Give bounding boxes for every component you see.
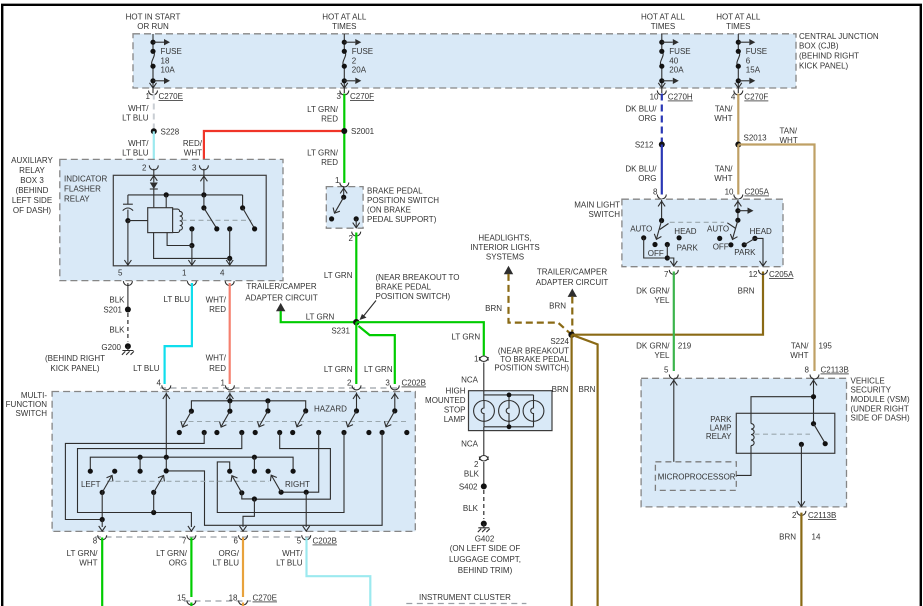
svg-text:FUSE: FUSE [161,47,182,56]
svg-text:LT BLU: LT BLU [213,559,240,568]
svg-text:10: 10 [650,93,659,102]
svg-text:TAN/: TAN/ [715,105,733,114]
VSM relay output to pin 2 [798,444,805,506]
wire DK GRN/YEL MLS pin 7 to VSM pin 5 [636,272,692,372]
svg-text:7: 7 [182,537,187,546]
wire BLK stop lamp to S402 [464,462,484,486]
svg-text:S2013: S2013 [744,134,768,143]
wire TAN/WHT C270F to S2013 [714,94,738,145]
svg-text:BRN: BRN [738,287,755,296]
svg-text:RELAY: RELAY [19,166,45,175]
svg-text:KICK PANEL): KICK PANEL) [50,364,100,373]
svg-text:HOT IN START: HOT IN START [126,13,181,22]
splice S231 [331,319,359,336]
hazard pole 3 [253,408,283,435]
wire ORG/LT BLU MFS pin 6 to C270E pin 18 [213,538,243,598]
svg-text:5: 5 [297,537,302,546]
svg-text:DK BLU/: DK BLU/ [625,105,657,114]
svg-text:BRN: BRN [485,304,502,313]
svg-text:ADAPTER CIRCUIT: ADAPTER CIRCUIT [536,278,609,287]
wire BLK S201 to G200 [109,313,128,342]
connector C270F pin 3 [337,91,375,102]
svg-text:RED: RED [209,364,226,373]
svg-text:20A: 20A [352,66,367,75]
wire DK BLU/ORG C270H to S212 [625,94,661,145]
svg-text:BRN: BRN [552,385,569,394]
trailer/camper adapter circuit arrow (right) [536,268,609,335]
svg-text:3: 3 [385,379,390,388]
svg-text:FUNCTION: FUNCTION [6,400,48,409]
svg-text:219: 219 [678,342,692,351]
relay exit arrows pins 5 1 4 [124,260,233,265]
relay coil box [148,208,183,233]
svg-text:1: 1 [474,355,479,364]
svg-text:C202B: C202B [313,537,337,546]
park lamp relay switch [755,421,828,447]
svg-text:5: 5 [664,366,669,375]
svg-text:HOT AT ALL: HOT AT ALL [716,13,761,22]
label HOT AT ALL TIMES (fuse 6) [716,13,761,32]
svg-text:YEL: YEL [654,351,670,360]
svg-text:S231: S231 [331,327,350,336]
main light switch box [574,199,783,267]
svg-text:WHT: WHT [184,149,202,158]
svg-text:18: 18 [229,594,238,603]
svg-text:RED/: RED/ [183,139,203,148]
wire BRN S224 down right [572,335,598,606]
svg-text:INTERIOR LIGHTS: INTERIOR LIGHTS [470,243,539,252]
label near breakout to brake pedal position switch [360,273,460,320]
svg-text:15: 15 [177,594,186,603]
svg-text:2: 2 [347,379,352,388]
ground G402 [449,521,521,575]
svg-text:WHT: WHT [714,114,732,123]
svg-text:6: 6 [746,57,751,66]
svg-text:WHT/: WHT/ [128,139,149,148]
hazard pole 4 live to pin 5 node [281,433,319,528]
wire LT BLU relay pin 1 to MFS pin 4 [133,283,192,384]
turn switch 3 [231,476,257,527]
svg-text:ORG/: ORG/ [219,549,240,558]
svg-text:MULTI-: MULTI- [21,391,47,400]
svg-text:18: 18 [161,57,170,66]
svg-text:RELAY: RELAY [706,432,732,441]
svg-text:HOT AT ALL: HOT AT ALL [641,13,686,22]
svg-text:(BEHIND RIGHT: (BEHIND RIGHT [799,52,859,61]
lamp bulb 2 [499,401,520,422]
instrument cluster box [406,593,526,603]
connector VSM pin 8 C2113B [805,366,849,380]
connector MFS pin 5 [297,535,311,545]
MFS pin 3 entry wire [391,393,398,411]
fuse 6 15A [736,34,767,93]
connector VSM pin 5 [664,366,678,380]
svg-text:ORG: ORG [638,174,656,183]
multi-function switch box [6,391,416,531]
svg-text:INDICATOR: INDICATOR [64,175,107,184]
connector MFS pin 3 [385,379,399,390]
svg-text:(BEHIND: (BEHIND [16,186,49,195]
relay capacitor [123,195,133,221]
svg-text:AUTO: AUTO [630,225,652,234]
hazard linkage dashes [180,405,408,422]
svg-text:POSITION SWITCH): POSITION SWITCH) [494,364,569,373]
connector line C270E bottom [184,594,277,603]
relay pin 2 entry arrow and diode [150,169,158,208]
brake pedal position switch box [326,186,439,228]
svg-text:C205A: C205A [745,188,770,197]
microprocessor box [655,462,736,491]
svg-text:S402: S402 [459,483,478,492]
svg-text:TAN/: TAN/ [780,127,798,136]
svg-text:KICK PANEL): KICK PANEL) [799,62,849,71]
svg-text:4: 4 [157,379,162,388]
svg-text:8: 8 [653,188,658,197]
svg-text:SIDE OF DASH): SIDE OF DASH) [851,414,910,423]
svg-text:TIMES: TIMES [726,22,750,31]
svg-text:(UNDER RIGHT: (UNDER RIGHT [851,404,909,413]
svg-text:LAMP: LAMP [444,415,466,424]
relay mechanical link [182,219,252,221]
park lamp relay coil and micro wire [736,397,813,476]
svg-text:LT GRN: LT GRN [364,365,393,374]
svg-text:LT BLU: LT BLU [122,114,149,123]
svg-text:1: 1 [221,379,226,388]
VSM pin 5 entry to microprocessor [670,379,677,462]
splice S224 [494,332,574,373]
svg-text:BEHIND TRIM): BEHIND TRIM) [458,566,513,575]
svg-text:WHT: WHT [780,136,798,145]
svg-text:WHT: WHT [714,174,732,183]
svg-text:BRN: BRN [579,385,596,394]
MFS pin 1 entry wire [226,393,233,401]
hazard pole 4 [290,408,321,435]
relay pin 3 entry arrow [200,169,207,195]
inline connector stop lamp pin 2 [474,456,488,470]
fuse 18 10A [150,34,181,93]
wire BLK S402 to G402 [463,490,484,519]
MFS pin 4 entry wire [163,393,170,458]
svg-text:14: 14 [812,533,821,542]
svg-text:TRAILER/CAMPER: TRAILER/CAMPER [537,268,607,277]
svg-text:WHT: WHT [790,351,808,360]
svg-text:G200: G200 [101,343,121,352]
splice S402 [459,483,487,492]
svg-text:BRN: BRN [779,533,796,542]
svg-text:HOT AT ALL: HOT AT ALL [322,13,367,22]
connector brake switch pin 2 [349,232,361,243]
svg-text:BLK: BLK [109,296,125,305]
svg-text:DK BLU/: DK BLU/ [625,165,657,174]
wire BRN VSM pin 2 down [779,513,821,606]
label high mounted stop lamp [425,387,466,425]
svg-text:C270F: C270F [744,93,768,102]
label HOT AT ALL TIMES (fuse 40) [641,13,686,32]
vehicle security module box [641,376,910,507]
label HOT IN START OR RUN [126,13,181,32]
svg-text:LT GRN/: LT GRN/ [156,549,188,558]
wire RED/WHT S2001 to relay pin 3 [183,131,344,169]
svg-text:8: 8 [805,366,810,375]
hazard pole 1 live to rail A [65,433,204,520]
svg-text:OFF: OFF [713,242,729,251]
svg-text:2: 2 [142,164,147,173]
svg-text:DK GRN/: DK GRN/ [636,342,670,351]
svg-text:ORG: ORG [638,114,656,123]
wire LT GRN S231 to MFS pin 2 [324,322,356,384]
svg-text:S201: S201 [103,306,122,315]
svg-text:ADAPTER CIRCUIT: ADAPTER CIRCUIT [245,294,318,303]
svg-text:MICROPROCESSOR: MICROPROCESSOR [658,473,736,482]
MLS left switch [630,200,698,266]
svg-text:LT BLU: LT BLU [122,149,149,158]
connector MFS pin 8 [93,535,107,545]
svg-text:TRAILER/CAMPER: TRAILER/CAMPER [246,282,316,291]
svg-text:SWITCH: SWITCH [15,409,47,418]
connector relay pin 5 [118,269,132,286]
svg-text:LT GRN: LT GRN [452,333,481,342]
connector C270E pin 1 [146,91,183,102]
svg-text:LT GRN/: LT GRN/ [67,549,99,558]
wire WHT/RED relay pin 4 to MFS pin 1 [206,283,230,384]
wire WHT/LT BLU S228 to relay pin 2 [122,131,154,169]
wire WHT/LT BLU C270E to S228 [122,94,154,132]
svg-text:C270H: C270H [668,93,693,102]
ground G200 [45,343,134,373]
wire BRN S224 down left [552,335,572,606]
svg-text:BRAKE PEDAL: BRAKE PEDAL [367,186,423,195]
svg-text:8: 8 [93,537,98,546]
svg-text:40: 40 [669,57,678,66]
connector relay pin 1 [182,269,196,286]
CJB exit arrows [150,83,742,88]
connector C205A pin 10 [725,188,770,200]
svg-text:LT GRN/: LT GRN/ [307,149,339,158]
wire TAN/WHT S2013 to MLS pin 10 [714,145,738,195]
svg-text:NCA: NCA [461,440,479,449]
svg-text:WHT/: WHT/ [128,104,149,113]
relay switch B [154,195,258,265]
svg-text:POSITION SWITCH): POSITION SWITCH) [376,292,451,301]
svg-text:S224: S224 [550,337,569,346]
left turn switch [81,475,113,527]
svg-text:C270E: C270E [253,594,277,603]
svg-text:HAZARD: HAZARD [314,405,347,414]
wire DK BLU/ORG S212 to MLS pin 8 [625,145,661,195]
headlights interior lights systems arrow [470,234,571,335]
splice S201 [103,306,131,315]
wire LT GRN/RED C270F to brake switch [307,94,344,184]
svg-text:12: 12 [749,270,758,279]
svg-text:WHT/: WHT/ [282,549,303,558]
label auxiliary relay box 3 [11,156,53,215]
hazard pole 6 contact path [166,433,382,526]
indicator flasher relay box [64,175,266,266]
connector brake switch pin 1 [335,176,349,187]
svg-text:LT GRN: LT GRN [324,271,353,280]
wire BLK relay pin 5 to S201 [109,283,128,310]
svg-text:LT GRN: LT GRN [306,313,335,322]
wire LT GRN/WHT MFS pin 8 down [67,538,103,606]
lamp bulb 3 [523,401,544,422]
trailer/camper adapter circuit arrow (left) [245,282,356,322]
svg-text:BRAKE PEDAL: BRAKE PEDAL [376,283,432,292]
relay internal bus [128,192,243,197]
wire LT GRN S231 jog to MFS pin 3 [359,326,395,384]
hazard pole 5 (pin 2) [341,408,371,435]
svg-text:2: 2 [792,511,797,520]
svg-text:C270E: C270E [159,92,183,101]
wire NCA stop lamp feed [461,363,484,391]
svg-text:3: 3 [337,92,342,101]
svg-text:LEFT: LEFT [81,480,101,489]
svg-text:WHT: WHT [79,559,97,568]
hazard pole 2 live to rail B [78,433,242,528]
connector C270E pin 18 [229,594,248,606]
connector line C202B top [160,379,426,389]
MFS pin 2 entry wire [353,393,360,411]
svg-text:C205A: C205A [769,270,794,279]
MFS exit arrows [99,526,310,531]
wire LT GRN/ORG MFS pin 7 to C270E pin 15 [156,538,191,598]
high mounted stop lamp box [469,391,553,431]
svg-text:RED: RED [321,158,338,167]
lamp box wiring [484,391,534,431]
svg-text:SWITCH: SWITCH [588,210,620,219]
svg-text:YEL: YEL [654,296,670,305]
auxiliary relay box 3 [60,159,283,280]
svg-text:PEDAL SUPPORT): PEDAL SUPPORT) [367,215,437,224]
connector VSM pin 2 C2113B [792,511,836,520]
MLS right switch [707,200,772,266]
turn rail C [90,455,293,472]
svg-text:7: 7 [664,270,669,279]
svg-text:HEAD: HEAD [750,227,772,236]
wire TAN/WHT S2013 branch right to VSM pin 8 [738,127,832,372]
svg-text:STOP: STOP [444,406,466,415]
svg-text:(BEHIND RIGHT: (BEHIND RIGHT [45,354,105,363]
svg-text:SYSTEMS: SYSTEMS [486,253,524,262]
svg-text:PARK: PARK [677,244,699,253]
svg-text:CENTRAL JUNCTION: CENTRAL JUNCTION [799,32,879,41]
svg-text:RELAY: RELAY [64,195,90,204]
connector MLS pin 12 C205A [749,270,795,279]
svg-text:AUXILIARY: AUXILIARY [11,156,53,165]
svg-text:C202B: C202B [402,379,426,388]
hazard pole 3 live to pin 6 node [254,433,330,500]
svg-text:1: 1 [335,176,340,185]
lamp bulb 1 [474,401,495,422]
svg-text:PARK: PARK [734,248,756,257]
svg-text:AUTO: AUTO [707,225,729,234]
right turn switch [270,475,310,495]
svg-text:C2113B: C2113B [821,366,849,375]
label HOT AT ALL TIMES (fuse 2) [322,13,367,32]
svg-text:(ON BRAKE: (ON BRAKE [367,205,411,214]
connector C270H pin 10 [650,91,693,102]
svg-text:BOX (CJB): BOX (CJB) [799,42,839,51]
splice S2001 [341,127,374,136]
svg-text:LT BLU: LT BLU [164,295,191,304]
svg-text:RED: RED [209,305,226,314]
hazard pole 6 (pin 3) [380,408,410,435]
svg-text:VEHICLE: VEHICLE [851,376,885,385]
svg-text:BOX 3: BOX 3 [20,176,44,185]
svg-text:BLK: BLK [109,326,125,335]
connector relay pin 2 [142,164,158,173]
connector C205A-left pin 8 [653,188,666,200]
svg-text:S228: S228 [161,128,180,137]
label CJB name [799,32,879,71]
svg-text:HIGH: HIGH [446,387,466,396]
svg-text:4: 4 [731,93,736,102]
svg-text:OR RUN: OR RUN [137,22,169,31]
connector MFS pin 7 [182,535,196,545]
svg-text:6: 6 [234,537,239,546]
svg-text:(NEAR BREAKOUT TO: (NEAR BREAKOUT TO [376,273,460,282]
connector C270F pin 4 [731,91,769,102]
hazard pole 2 [214,409,244,436]
hazard feed rail [191,398,305,411]
svg-text:20A: 20A [669,66,684,75]
fuse 40 20A [659,34,690,93]
svg-text:S212: S212 [635,141,654,150]
splice S228 [151,128,180,137]
svg-text:2: 2 [352,57,357,66]
svg-text:OF DASH): OF DASH) [13,206,52,215]
wire LT GRN brake switch to S231 [324,233,356,323]
svg-text:RIGHT: RIGHT [285,480,310,489]
svg-text:10A: 10A [161,66,176,75]
connector MFS pin 4 [157,379,171,390]
svg-text:NCA: NCA [461,376,479,385]
connector line C202B bottom [95,537,337,546]
svg-text:FUSE: FUSE [746,47,767,56]
svg-text:LT GRN: LT GRN [324,365,353,374]
central junction box (CJB) [133,34,796,88]
svg-text:4: 4 [220,269,225,278]
svg-text:MAIN LIGHT: MAIN LIGHT [574,201,620,210]
svg-text:2: 2 [349,234,354,243]
fuse 2 20A [342,34,373,93]
relay switch A [167,195,219,265]
svg-text:1: 1 [182,269,187,278]
svg-text:ORG: ORG [169,559,187,568]
connector MFS pin 6 [234,535,248,545]
relay cap to coil wiring [125,195,166,265]
turn row contacts [88,468,296,474]
svg-text:C270F: C270F [350,92,374,101]
svg-text:WHT/: WHT/ [206,354,227,363]
turn switch 2 [151,475,164,512]
connector MFS pin 2 [347,379,361,390]
turn linkage dashes [107,480,269,482]
svg-text:15A: 15A [746,66,761,75]
svg-text:FUSE: FUSE [669,47,690,56]
svg-text:MOUNTED: MOUNTED [425,396,466,405]
splice S212 [635,141,665,150]
svg-text:RED: RED [321,115,338,124]
svg-text:TIMES: TIMES [651,22,675,31]
svg-text:(ON LEFT SIDE OF: (ON LEFT SIDE OF [450,544,521,553]
svg-text:LT BLU: LT BLU [276,559,303,568]
MLS linkage dashes [670,221,724,223]
svg-text:195: 195 [819,342,833,351]
svg-text:LEFT SIDE: LEFT SIDE [12,196,52,205]
svg-text:G402: G402 [475,535,495,544]
svg-text:5: 5 [118,269,123,278]
svg-text:LT GRN/: LT GRN/ [307,105,339,114]
